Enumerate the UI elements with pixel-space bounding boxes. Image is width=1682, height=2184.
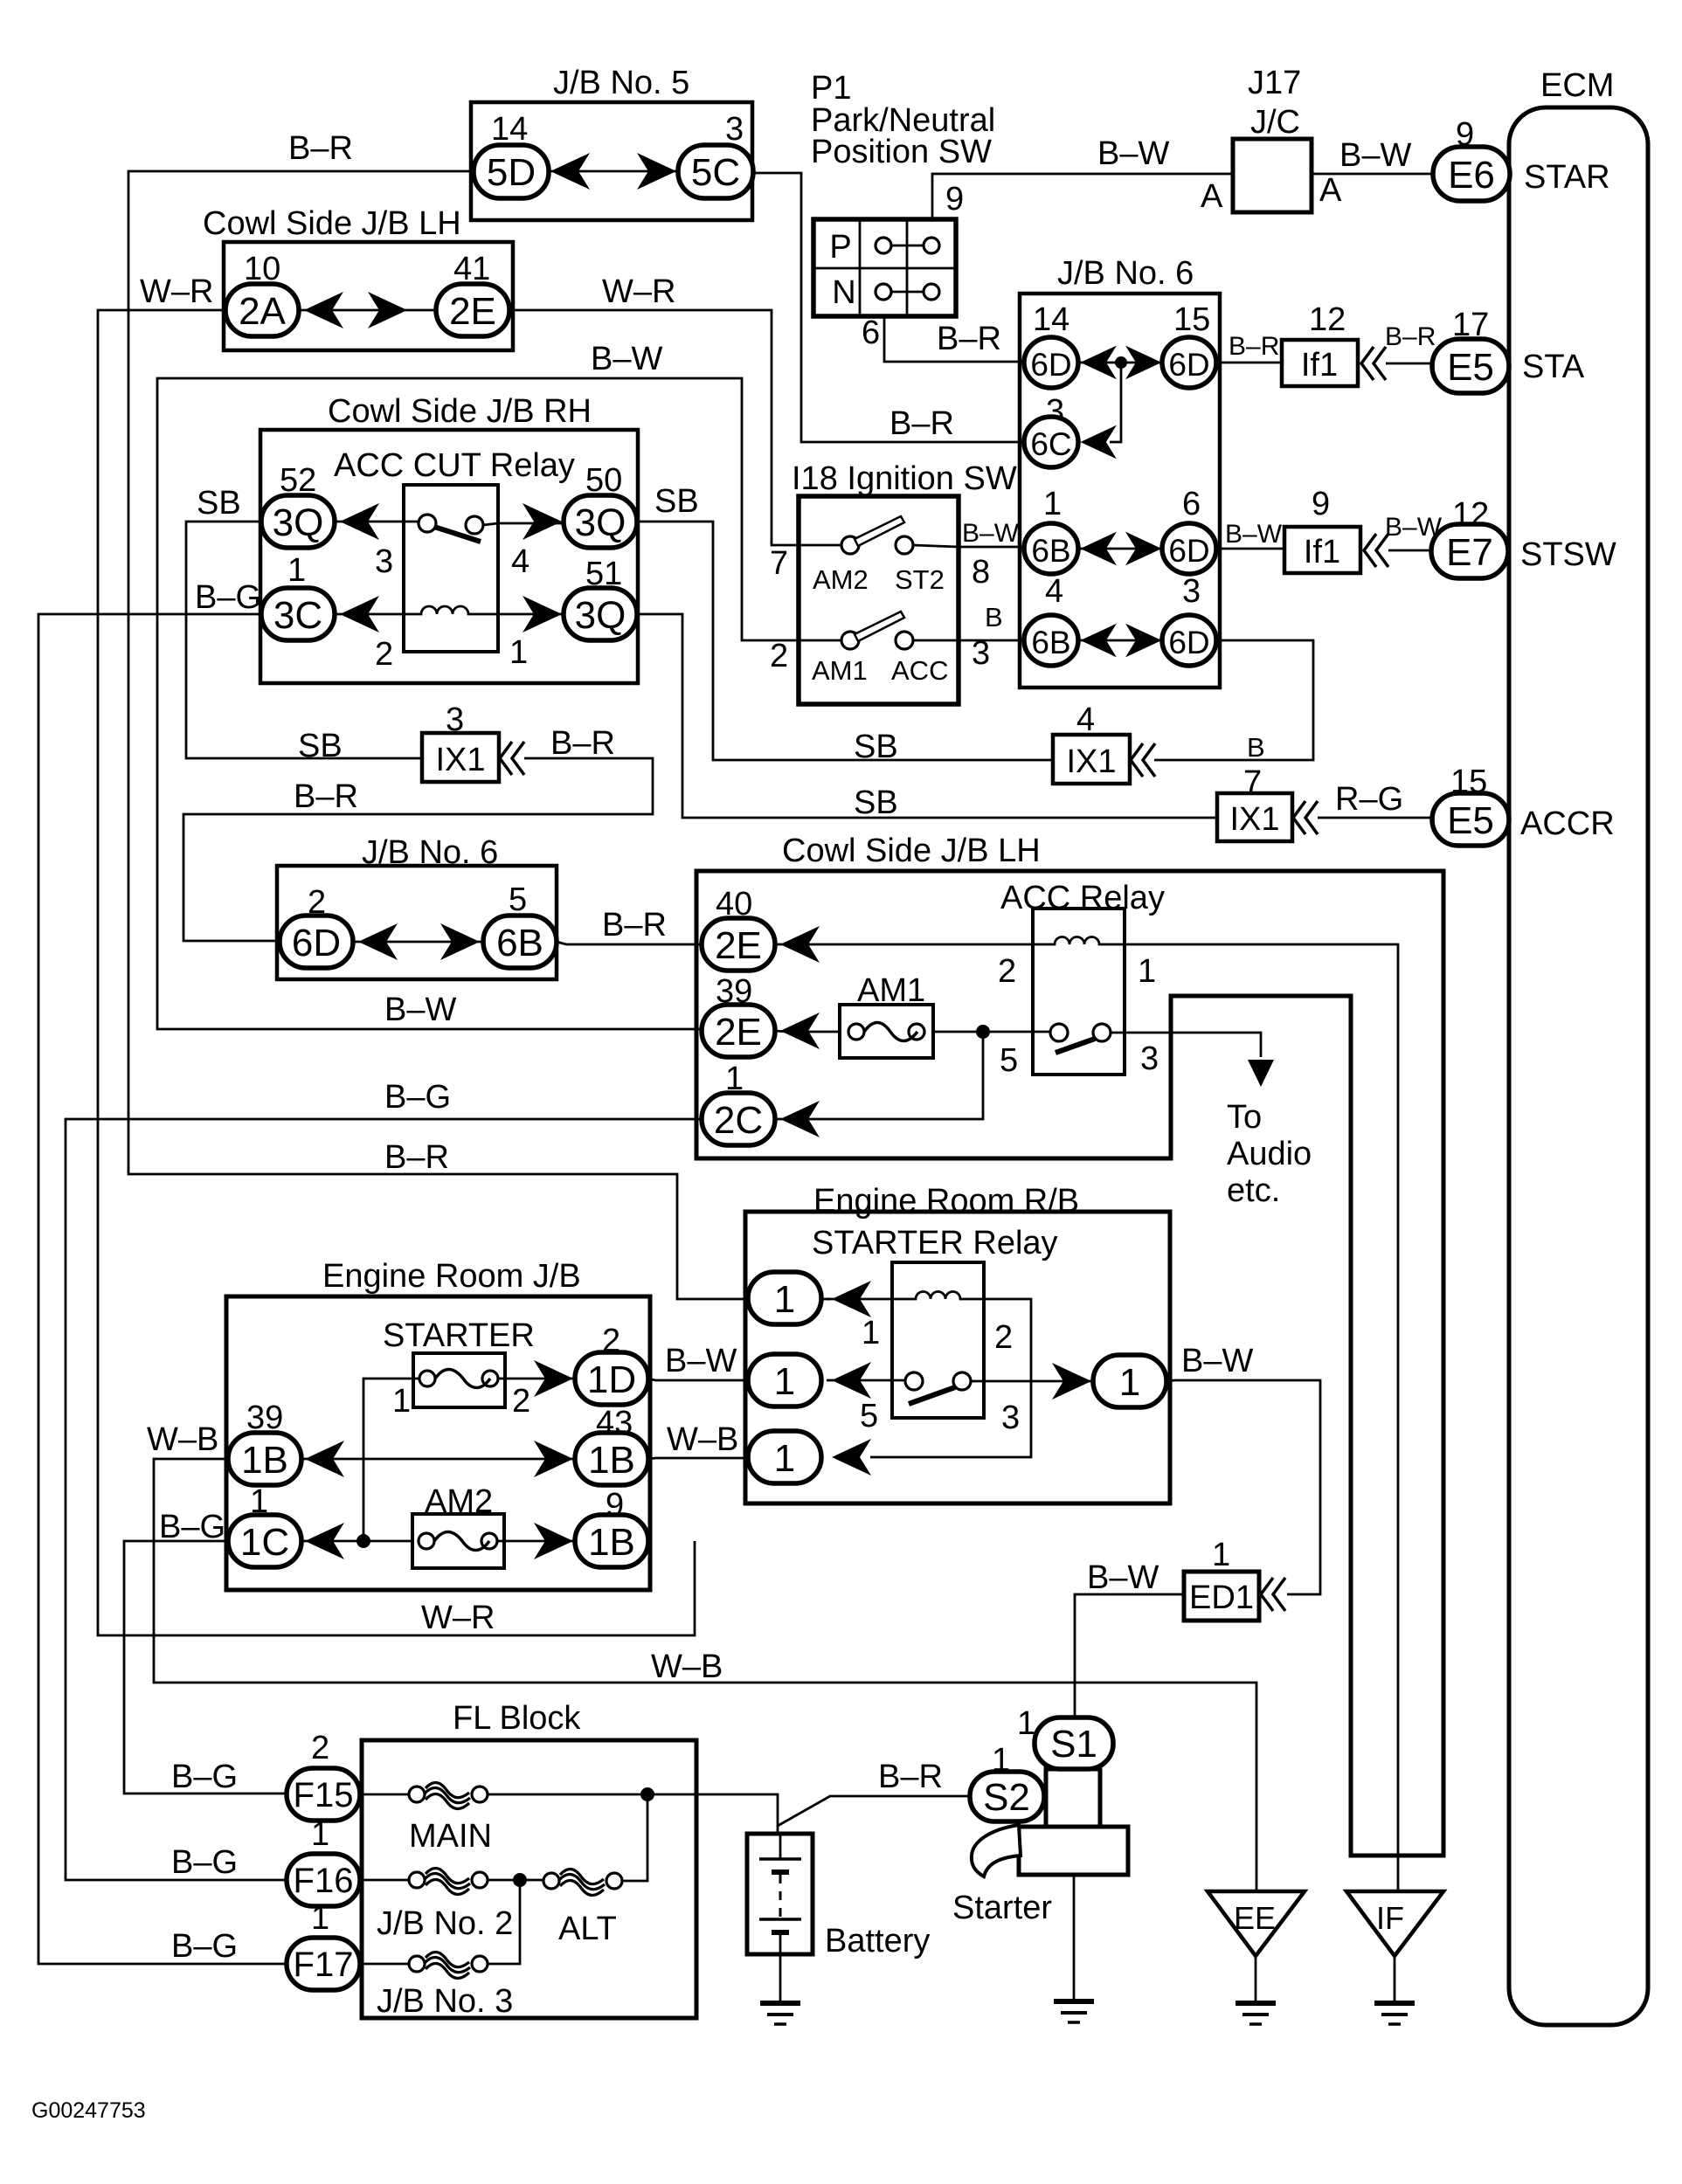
connector F16 bbox=[287, 1854, 360, 1906]
arrow into 3Q50 bbox=[523, 503, 562, 540]
wire F15 to MAIN bbox=[360, 1794, 409, 1796]
svg-text:4: 4 bbox=[511, 543, 530, 580]
coil ACC CUT relay bbox=[404, 606, 498, 614]
svg-text:B–W: B–W bbox=[384, 992, 456, 1028]
svg-text:ED1: ED1 bbox=[1189, 1579, 1254, 1616]
wire junction down to 6C arrow bbox=[1110, 363, 1121, 442]
svg-text:B–W: B–W bbox=[962, 519, 1020, 548]
wire W-B 1B39 to EE bbox=[154, 1459, 1256, 1890]
svg-text:B–R: B–R bbox=[937, 321, 1001, 357]
fuse J/B No.2 element bbox=[409, 1872, 425, 1888]
junction dot MAIN out bbox=[640, 1787, 654, 1801]
svg-text:Position SW: Position SW bbox=[811, 134, 992, 170]
svg-text:3Q: 3Q bbox=[575, 594, 626, 637]
svg-text:B–G: B–G bbox=[384, 1079, 451, 1116]
wire B-G 3C to F17 bbox=[38, 614, 287, 1964]
connector 6B4 bbox=[1024, 615, 1078, 666]
svg-text:B–W: B–W bbox=[1339, 137, 1411, 174]
svg-text:IX1: IX1 bbox=[1229, 801, 1279, 838]
battery box bbox=[747, 1834, 813, 1954]
connector 2A bbox=[225, 284, 299, 336]
wire B-R 5C to 6C bbox=[752, 173, 1024, 442]
box Cowl Side J/B LH upper bbox=[224, 242, 513, 350]
svg-text:AM1: AM1 bbox=[812, 655, 868, 686]
contact AM2 bbox=[841, 536, 859, 554]
svg-text:Cowl Side J/B LH: Cowl Side J/B LH bbox=[203, 205, 461, 242]
wire 2E40 to ACC relay coil bbox=[775, 943, 1033, 946]
svg-text:SB: SB bbox=[654, 483, 699, 520]
link P contacts bbox=[891, 245, 924, 247]
box ACC CUT relay element bbox=[404, 485, 498, 652]
svg-text:W–B: W–B bbox=[667, 1421, 738, 1458]
connector 1C bbox=[228, 1515, 301, 1567]
connector E7 bbox=[1431, 524, 1508, 578]
wire EE to ground bbox=[1255, 1956, 1257, 2001]
svg-text:B–R: B–R bbox=[1229, 332, 1279, 361]
svg-text:Engine Room R/B: Engine Room R/B bbox=[813, 1183, 1079, 1220]
arrow into 6B4 bbox=[1080, 624, 1116, 658]
receive chevrons IX1-4 bbox=[1131, 743, 1155, 777]
svg-text:ACCR: ACCR bbox=[1520, 805, 1615, 842]
svg-text:B–G: B–G bbox=[171, 1759, 238, 1795]
box FL Block bbox=[362, 1740, 696, 2018]
svg-text:Engine Room J/B: Engine Room J/B bbox=[322, 1258, 581, 1295]
wire coil to 3Q51 bbox=[498, 613, 564, 616]
svg-text:2: 2 bbox=[375, 636, 393, 673]
receive chevrons IX1-7 bbox=[1293, 801, 1318, 834]
svg-text:W–B: W–B bbox=[651, 1648, 723, 1685]
box J/B No. 6 lower bbox=[277, 866, 557, 979]
fuse STARTER element bbox=[419, 1371, 435, 1386]
svg-text:B–R: B–R bbox=[602, 907, 667, 943]
svg-text:1: 1 bbox=[1017, 1705, 1035, 1742]
arrow into 1C bbox=[305, 1523, 344, 1559]
svg-text:1: 1 bbox=[509, 634, 528, 671]
svg-text:R–G: R–G bbox=[1335, 781, 1403, 818]
connector RB1 mid bbox=[748, 1354, 821, 1406]
arrow into 5C bbox=[637, 153, 676, 190]
wire B-R IX1-3 to 6D2 bbox=[183, 758, 653, 941]
connector 6D15 bbox=[1162, 337, 1216, 388]
ACC relay contact right bbox=[1093, 1024, 1111, 1041]
divider P1 vertical 1 bbox=[859, 219, 862, 316]
wire F17 to JB3 fuse bbox=[360, 1963, 409, 1966]
wire 1C B-G to F15 bbox=[124, 1541, 287, 1794]
ground IF triangle bbox=[1346, 1891, 1443, 1956]
wire AM1 fuse to relay switch bbox=[933, 1031, 1054, 1033]
wire 6D2 to 6B5 bbox=[353, 941, 483, 943]
svg-text:etc.: etc. bbox=[1227, 1172, 1280, 1209]
connector 5D bbox=[474, 145, 549, 198]
contact N left bbox=[876, 284, 891, 300]
wire 6D6 to If1-9 bbox=[1216, 548, 1284, 550]
svg-text:4: 4 bbox=[1076, 702, 1095, 738]
connector 1D bbox=[575, 1352, 648, 1405]
battery internal wire top bbox=[779, 1834, 782, 1859]
arrow into 1D bbox=[534, 1360, 573, 1397]
box J/B No. 5 bbox=[471, 102, 752, 220]
svg-text:3: 3 bbox=[1001, 1400, 1020, 1436]
connector RB1 top bbox=[748, 1272, 821, 1324]
svg-text:B–R: B–R bbox=[384, 1139, 449, 1176]
battery internal wire bottom bbox=[779, 1932, 782, 1954]
wire 1B39 to 1B43 bbox=[301, 1458, 577, 1461]
svg-text:1: 1 bbox=[1043, 486, 1062, 522]
svg-text:5: 5 bbox=[509, 881, 527, 918]
arrow into 2C bbox=[780, 1101, 820, 1137]
lever AM2-ST2 bbox=[855, 516, 904, 546]
wire 1B43 to RB1 bottom W-B bbox=[648, 1458, 748, 1459]
arrow into 6B5 bbox=[440, 923, 480, 960]
arrow into 3Q52 bbox=[340, 503, 379, 540]
ground IF bbox=[1374, 2003, 1415, 2024]
arrow into RB1 mid bbox=[832, 1362, 871, 1399]
wire battery to S2 bbox=[778, 1796, 973, 1826]
wire F16 to JB2 fuse bbox=[360, 1879, 409, 1882]
svg-text:B–W: B–W bbox=[1225, 520, 1283, 549]
wire P1 pin6 to 6D14 bbox=[884, 316, 1026, 362]
svg-text:IX1: IX1 bbox=[1066, 743, 1116, 780]
contact N right bbox=[924, 284, 939, 300]
svg-text:2E: 2E bbox=[715, 1011, 762, 1054]
svg-text:E5: E5 bbox=[1447, 799, 1494, 842]
svg-text:STSW: STSW bbox=[1520, 536, 1616, 573]
connector If1-9 bbox=[1284, 527, 1360, 573]
svg-text:W–B: W–B bbox=[147, 1421, 218, 1458]
svg-text:STARTER: STARTER bbox=[383, 1317, 535, 1354]
svg-text:2: 2 bbox=[512, 1383, 530, 1420]
svg-text:9: 9 bbox=[945, 181, 964, 218]
receive chevrons If1-9 bbox=[1364, 534, 1388, 567]
arrow into 3C bbox=[340, 596, 379, 632]
connector 2E41 bbox=[436, 284, 509, 336]
svg-text:Starter: Starter bbox=[952, 1890, 1052, 1926]
wire starter fuse to AM2 node bbox=[363, 1379, 419, 1541]
box ECM bbox=[1509, 107, 1648, 2025]
svg-text:MAIN: MAIN bbox=[409, 1818, 492, 1855]
wire JB2 to ALT bbox=[488, 1879, 543, 1882]
svg-text:B–R: B–R bbox=[294, 778, 358, 815]
svg-text:1: 1 bbox=[392, 1383, 411, 1420]
arrow into 6B1 bbox=[1080, 532, 1116, 566]
svg-text:E5: E5 bbox=[1447, 346, 1494, 389]
svg-text:ALT: ALT bbox=[558, 1911, 617, 1947]
battery plate long top bbox=[759, 1857, 801, 1861]
connector RB1 bottom bbox=[748, 1431, 821, 1483]
svg-text:3: 3 bbox=[972, 635, 990, 672]
wire RB1 mid to relay contact bbox=[827, 1379, 905, 1382]
svg-text:2: 2 bbox=[770, 638, 788, 674]
svg-text:5: 5 bbox=[1000, 1042, 1018, 1079]
arrow into 5D bbox=[550, 153, 590, 190]
wire B-R 5D to starter relay coil bbox=[128, 171, 830, 1299]
wire IF to ground bbox=[1394, 1956, 1396, 2001]
svg-text:Audio: Audio bbox=[1227, 1136, 1312, 1172]
svg-text:1B: 1B bbox=[588, 1521, 635, 1564]
svg-text:J/B No. 6: J/B No. 6 bbox=[1057, 255, 1194, 292]
svg-text:2: 2 bbox=[311, 1730, 329, 1766]
connector 6D14 bbox=[1024, 337, 1078, 388]
wire P1 pin9 up to B-W bbox=[932, 174, 1233, 219]
svg-text:B–R: B–R bbox=[550, 725, 615, 762]
ground EE triangle bbox=[1208, 1891, 1305, 1956]
wire coil to RB1 bottom bbox=[870, 1299, 1031, 1457]
svg-text:2A: 2A bbox=[239, 290, 286, 333]
svg-text:To: To bbox=[1227, 1099, 1262, 1136]
divider P1 vertical 2 bbox=[906, 219, 909, 316]
wire W-R 2E41 to ignition AM2 pin7 bbox=[509, 310, 842, 545]
svg-text:2: 2 bbox=[994, 1319, 1013, 1356]
svg-text:Battery: Battery bbox=[825, 1923, 930, 1959]
wire J17 to E6 bbox=[1312, 173, 1436, 176]
wire SB 3Q51 to IX1-7 bbox=[637, 614, 1217, 818]
svg-text:6: 6 bbox=[862, 314, 880, 351]
wire 6D15 to If1-12 bbox=[1216, 362, 1282, 364]
svg-text:6C: 6C bbox=[1030, 426, 1071, 462]
arrow into 6D2 bbox=[358, 923, 398, 960]
svg-text:1: 1 bbox=[1212, 1537, 1230, 1573]
svg-text:2C: 2C bbox=[714, 1099, 763, 1142]
wire 2A to 2E41 bbox=[299, 309, 436, 312]
svg-text:B–W: B–W bbox=[1181, 1343, 1253, 1379]
svg-text:5C: 5C bbox=[691, 151, 740, 194]
svg-text:I18 Ignition SW: I18 Ignition SW bbox=[792, 460, 1017, 497]
relay contact right bbox=[466, 516, 483, 534]
wire 6D14 to 6D15 bbox=[1078, 362, 1162, 364]
contact AM1 bbox=[841, 632, 859, 649]
svg-text:B–W: B–W bbox=[665, 1343, 737, 1379]
connector 6D6 bbox=[1162, 523, 1216, 574]
contact P right bbox=[924, 238, 939, 253]
svg-text:6B: 6B bbox=[496, 922, 543, 964]
arrow into 2E39 bbox=[780, 1013, 820, 1049]
connector 1B43 bbox=[575, 1433, 648, 1485]
connector 2E39 bbox=[702, 1005, 775, 1057]
svg-text:P1: P1 bbox=[811, 70, 851, 107]
junction connector J17 box bbox=[1233, 139, 1312, 212]
fuse MAIN element bbox=[409, 1787, 425, 1802]
svg-text:B–W: B–W bbox=[1097, 135, 1169, 172]
svg-text:AM2: AM2 bbox=[813, 564, 869, 595]
svg-text:1: 1 bbox=[1119, 1361, 1140, 1404]
svg-text:ECM: ECM bbox=[1540, 67, 1614, 104]
divider P1 horizontal bbox=[813, 267, 956, 270]
connector If1-12 bbox=[1282, 340, 1358, 386]
wire ACC to 6B4 bbox=[913, 639, 1026, 642]
svg-text:3: 3 bbox=[1140, 1040, 1159, 1077]
starter relay contact left bbox=[905, 1372, 923, 1390]
wire MAIN to battery bbox=[488, 1794, 778, 1834]
battery dashed link bbox=[779, 1875, 782, 1919]
junction dot AM2 node bbox=[356, 1534, 370, 1548]
svg-text:ST2: ST2 bbox=[895, 564, 945, 595]
connector E5-17 bbox=[1432, 339, 1509, 393]
wire If1-12 to E5-17 bbox=[1386, 363, 1435, 365]
svg-text:3Q: 3Q bbox=[575, 501, 626, 544]
wire relay contact to 3Q50 bbox=[483, 523, 564, 525]
battery plate short top bbox=[772, 1870, 789, 1875]
starter relay contact right bbox=[953, 1372, 971, 1390]
svg-text:1: 1 bbox=[774, 1360, 795, 1403]
connector F17 bbox=[287, 1938, 360, 1990]
svg-text:P: P bbox=[829, 229, 851, 266]
box Engine Room J/B bbox=[226, 1296, 650, 1590]
svg-text:B–R: B–R bbox=[878, 1759, 943, 1795]
svg-text:Cowl Side J/B LH: Cowl Side J/B LH bbox=[782, 833, 1041, 869]
connector IX1-7 bbox=[1217, 793, 1292, 841]
box Engine Room R/B bbox=[745, 1212, 1170, 1503]
svg-text:14: 14 bbox=[491, 111, 528, 148]
wire 5D to 5C bbox=[549, 170, 678, 173]
receive chevrons ED1 bbox=[1261, 1578, 1285, 1611]
svg-text:5D: 5D bbox=[487, 151, 536, 194]
wire 2C to AM1 node bbox=[775, 1032, 983, 1119]
connector 2E40 bbox=[702, 918, 775, 971]
coil STARTER relay bbox=[892, 1291, 984, 1299]
svg-text:9: 9 bbox=[1312, 486, 1330, 522]
svg-text:B–G: B–G bbox=[171, 1928, 238, 1965]
svg-text:6B: 6B bbox=[1031, 533, 1070, 569]
link N contacts bbox=[891, 291, 924, 294]
wire 6B4 to 6D3 bbox=[1078, 639, 1162, 642]
wire RB1 right to ED1 bbox=[1166, 1380, 1320, 1594]
connector 3Q51 bbox=[564, 588, 637, 640]
svg-text:1: 1 bbox=[862, 1315, 880, 1351]
svg-text:1B: 1B bbox=[588, 1439, 635, 1482]
wire If1-9 to E7 bbox=[1388, 549, 1434, 552]
connector ED1 bbox=[1184, 1572, 1259, 1621]
ground battery bbox=[760, 2003, 800, 2024]
ground starter bbox=[1054, 2001, 1094, 2022]
svg-text:1D: 1D bbox=[587, 1358, 636, 1401]
svg-text:F16: F16 bbox=[294, 1862, 354, 1900]
svg-text:2: 2 bbox=[998, 953, 1016, 990]
starter relay lever bbox=[909, 1387, 955, 1404]
svg-text:SB: SB bbox=[854, 729, 898, 765]
box Cowl Side J/B RH bbox=[260, 430, 638, 683]
fuse J/B No.3 element bbox=[409, 1956, 425, 1972]
wire ED1 to S1 bbox=[1075, 1594, 1184, 1719]
connector IX1-3 bbox=[422, 733, 499, 782]
wire relay contact to RB1 right bbox=[971, 1380, 1093, 1383]
connector 1B39 bbox=[228, 1433, 301, 1485]
svg-text:SB: SB bbox=[197, 485, 241, 522]
connector RB1 right bbox=[1093, 1355, 1166, 1407]
contact ACC bbox=[896, 632, 913, 649]
svg-text:1B: 1B bbox=[241, 1439, 288, 1482]
svg-text:EE: EE bbox=[1234, 1900, 1276, 1936]
box I18 ignition switch bbox=[799, 496, 959, 704]
svg-text:4: 4 bbox=[1045, 573, 1063, 610]
svg-text:6D: 6D bbox=[1030, 347, 1071, 383]
svg-text:STARTER Relay: STARTER Relay bbox=[812, 1225, 1058, 1261]
svg-text:IF: IF bbox=[1376, 1900, 1404, 1936]
connector IX1-4 bbox=[1053, 735, 1130, 784]
wire ACC relay to audio arrow bbox=[1111, 1033, 1261, 1057]
svg-text:6D: 6D bbox=[1168, 347, 1209, 383]
box STARTER relay element bbox=[892, 1262, 984, 1418]
starter motor base bbox=[1019, 1827, 1128, 1875]
svg-text:A: A bbox=[1201, 178, 1223, 215]
svg-text:E7: E7 bbox=[1446, 531, 1493, 574]
svg-text:6D: 6D bbox=[1168, 533, 1209, 569]
connector 6B1 bbox=[1024, 523, 1078, 574]
svg-text:SB: SB bbox=[298, 728, 343, 764]
box J/B No. 6 upper bbox=[1020, 294, 1220, 688]
svg-text:STA: STA bbox=[1522, 349, 1585, 385]
svg-text:FL Block: FL Block bbox=[453, 1700, 581, 1737]
box ACC relay element bbox=[1033, 909, 1125, 1075]
svg-text:S2: S2 bbox=[983, 1776, 1030, 1819]
svg-text:3Q: 3Q bbox=[273, 501, 324, 544]
svg-text:B–R: B–R bbox=[1385, 322, 1436, 351]
arrow into 2A bbox=[304, 292, 343, 328]
fuse STARTER box bbox=[413, 1353, 505, 1407]
svg-text:F17: F17 bbox=[294, 1946, 354, 1984]
svg-text:6B: 6B bbox=[1031, 625, 1070, 660]
wire 6B1 to 6D6 bbox=[1078, 548, 1162, 550]
arrow into RB1 top bbox=[832, 1281, 871, 1317]
wire ACC relay coil to IF bbox=[1125, 944, 1398, 1890]
svg-text:2E: 2E bbox=[449, 290, 496, 333]
connector 3Q52 bbox=[261, 495, 335, 548]
wire 1D to RB1 mid B-W bbox=[648, 1379, 748, 1380]
svg-text:3: 3 bbox=[375, 543, 393, 580]
svg-text:1: 1 bbox=[774, 1437, 795, 1480]
connector 3C bbox=[261, 588, 335, 640]
svg-text:B: B bbox=[985, 602, 1003, 632]
svg-text:3: 3 bbox=[1182, 573, 1201, 610]
connector F15 bbox=[287, 1768, 360, 1821]
wire ST2 to 6B1 bbox=[913, 545, 1026, 547]
svg-text:6D: 6D bbox=[1168, 625, 1209, 660]
svg-text:12: 12 bbox=[1309, 301, 1346, 338]
arrow into 6C bbox=[1080, 425, 1116, 460]
box park/neutral position switch P1 bbox=[813, 219, 956, 316]
connector S2 bbox=[970, 1772, 1044, 1821]
svg-text:J17: J17 bbox=[1248, 65, 1301, 101]
svg-text:14: 14 bbox=[1033, 301, 1069, 338]
connector 5C bbox=[678, 145, 753, 198]
svg-text:STAR: STAR bbox=[1524, 159, 1610, 196]
svg-text:ACC: ACC bbox=[891, 655, 948, 686]
svg-text:S1: S1 bbox=[1050, 1723, 1097, 1766]
svg-text:N: N bbox=[832, 274, 855, 311]
wire 2E39 to AM1 fuse bbox=[775, 1031, 840, 1032]
receive chevrons IX1-3 bbox=[500, 742, 524, 775]
svg-text:B–W: B–W bbox=[591, 341, 662, 377]
svg-text:SB: SB bbox=[854, 784, 898, 821]
svg-text:W–R: W–R bbox=[602, 273, 675, 310]
arrow into 2E41 bbox=[368, 292, 407, 328]
wire starter fuse to 1D bbox=[498, 1378, 575, 1380]
box Cowl Side J/B LH lower with notch bbox=[696, 871, 1443, 1856]
arrow into 1B39 bbox=[305, 1441, 344, 1477]
wire 6D3 to IX1-4 B bbox=[1154, 640, 1313, 760]
ground EE bbox=[1236, 2003, 1276, 2024]
connector E6 bbox=[1433, 147, 1510, 201]
svg-text:8: 8 bbox=[972, 554, 990, 591]
arrowhead to audio bbox=[1248, 1060, 1274, 1087]
svg-text:2E: 2E bbox=[715, 924, 762, 967]
arrow into RB1 right bbox=[1052, 1363, 1091, 1400]
arrow into 1B9 bbox=[534, 1523, 573, 1559]
connector 6D2 bbox=[280, 916, 353, 968]
starter solenoid body bbox=[1046, 1769, 1100, 1827]
arrow into 3Q51 bbox=[523, 596, 562, 632]
wire W-R 2A to AM2 fuse 1B9 bbox=[98, 310, 695, 1635]
svg-text:3C: 3C bbox=[273, 594, 322, 637]
